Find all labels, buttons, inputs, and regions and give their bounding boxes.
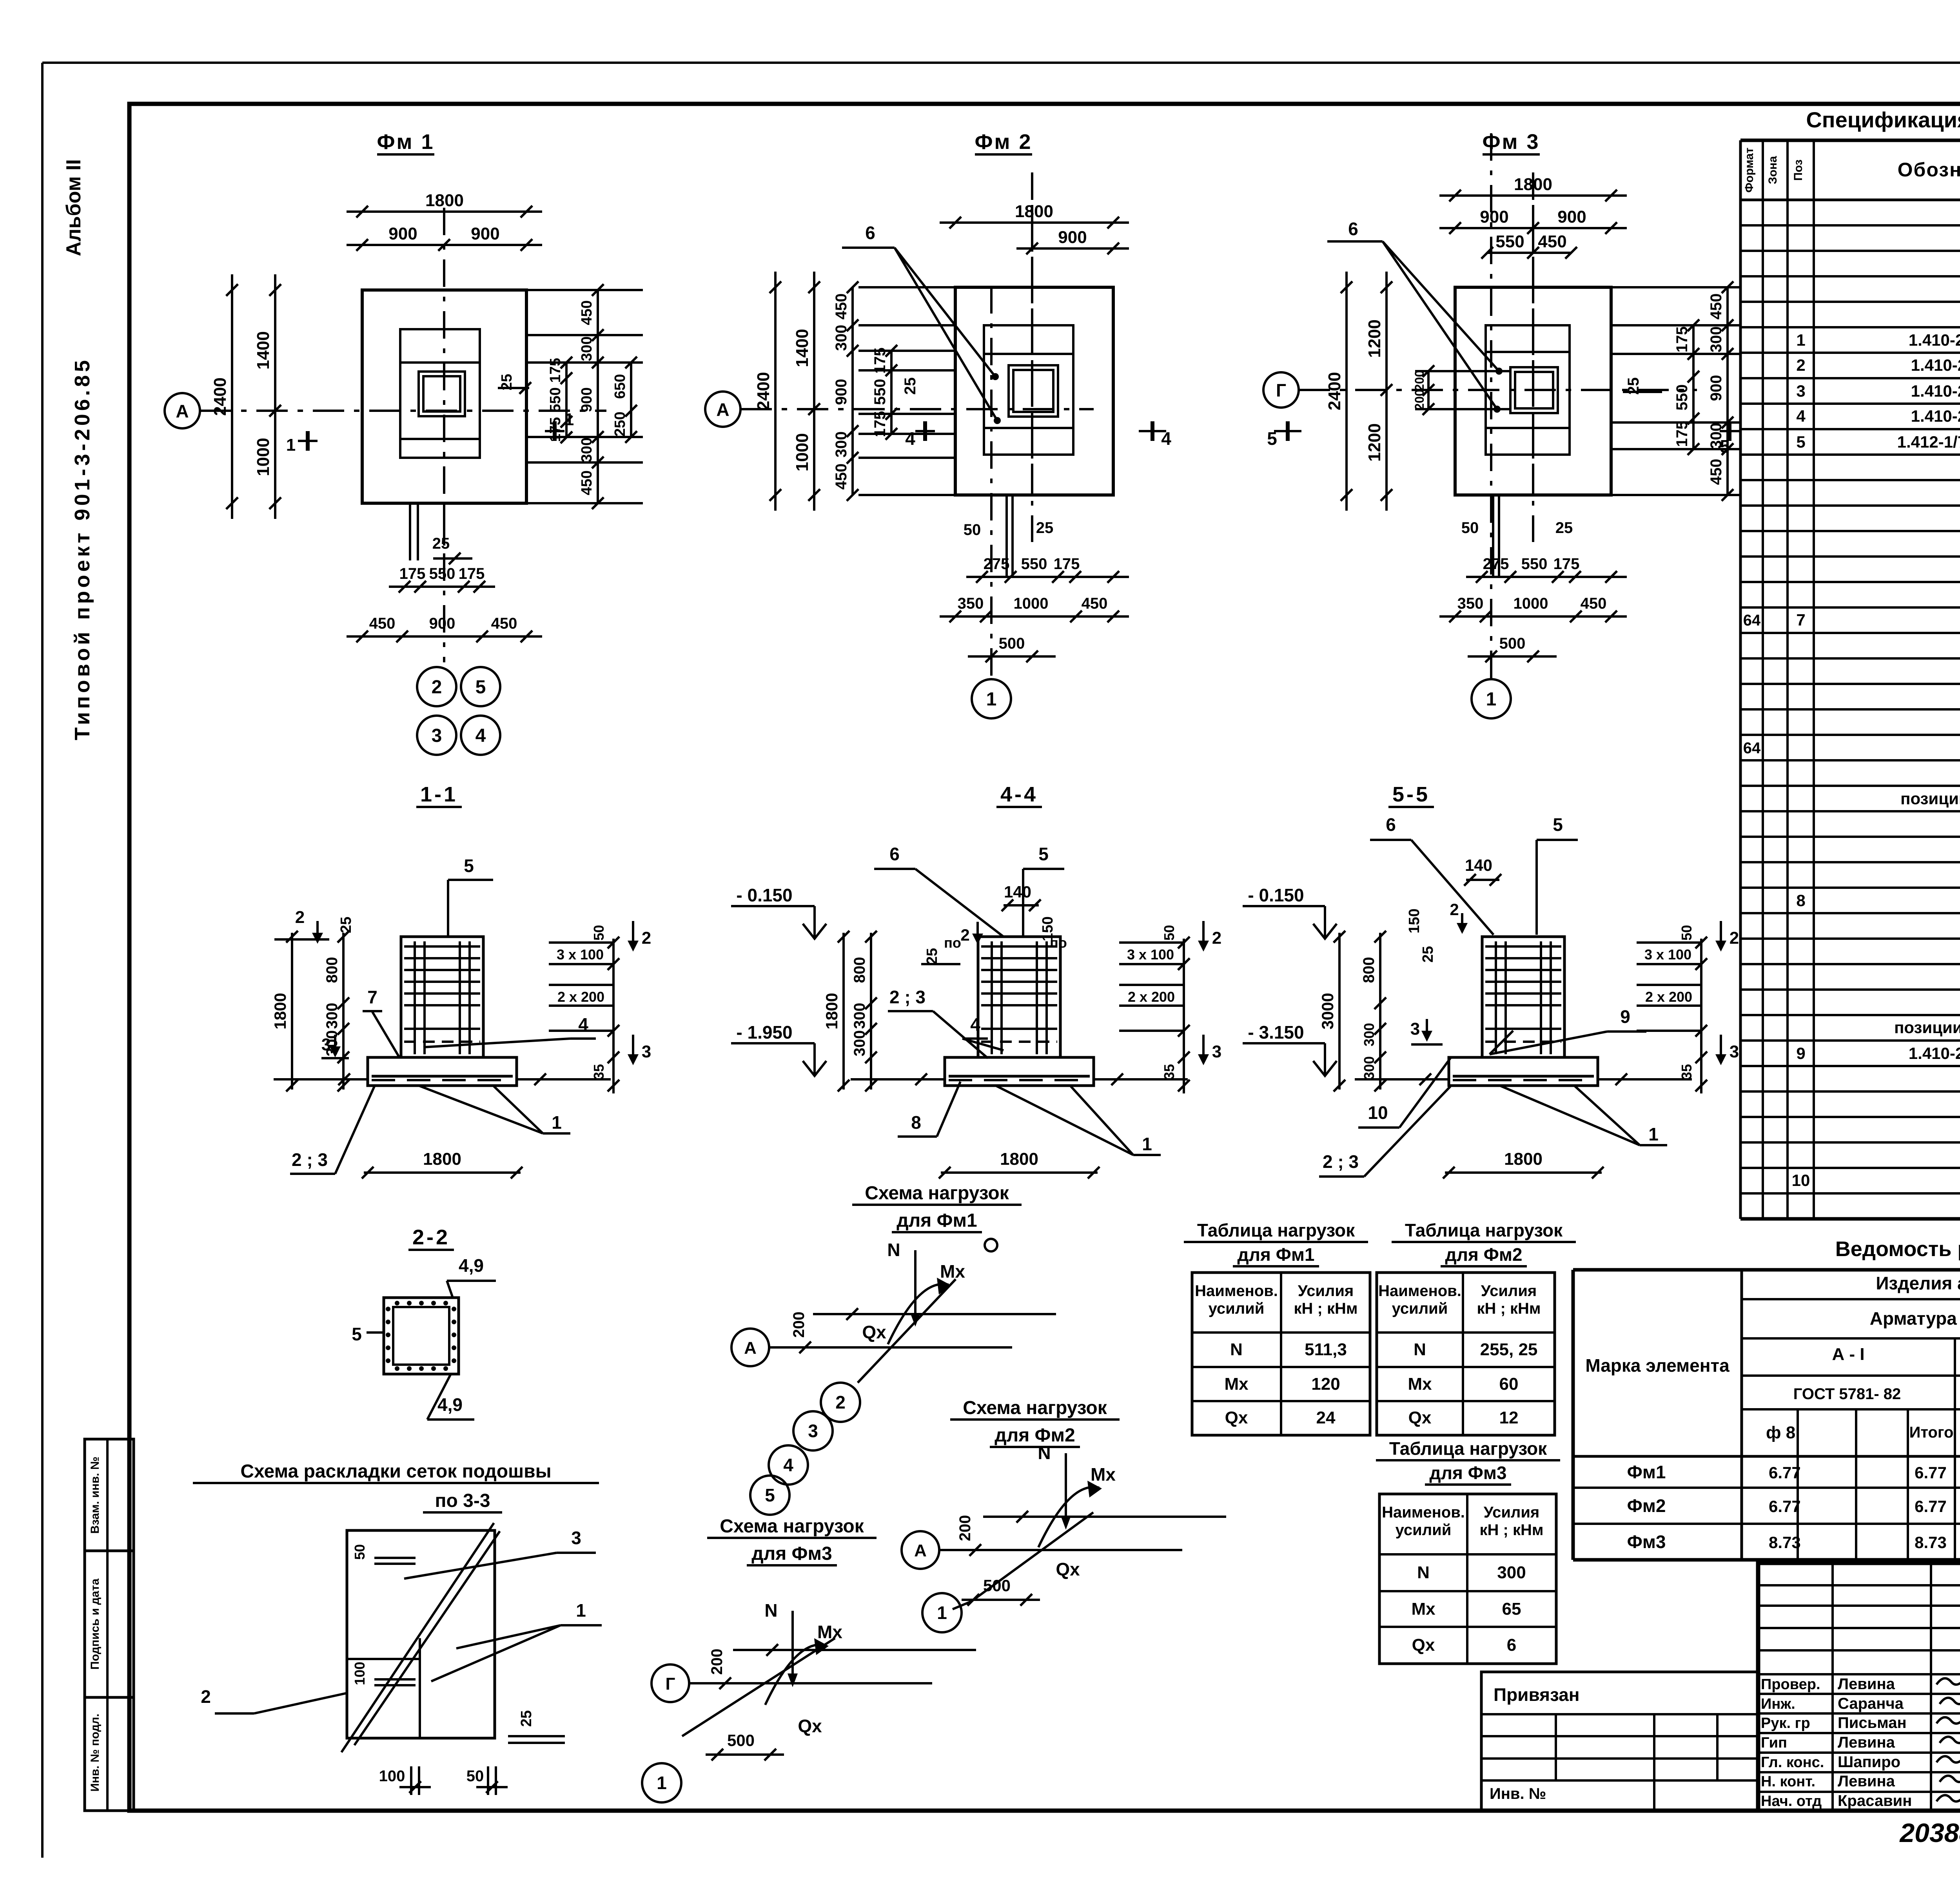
- svg-text:N: N: [1417, 1563, 1430, 1582]
- svg-text:450: 450: [1708, 294, 1725, 320]
- svg-text:N: N: [764, 1600, 777, 1621]
- svg-text:усилий: усилий: [1392, 1300, 1448, 1317]
- svg-text:4: 4: [1161, 428, 1171, 449]
- svg-text:1.410-2 Вып.1: 1.410-2 Вып.1: [1911, 382, 1960, 400]
- svg-text:175: 175: [1054, 555, 1080, 573]
- svg-text:4-4: 4-4: [1000, 783, 1038, 806]
- svg-text:ГОСТ 5781- 82: ГОСТ 5781- 82: [1793, 1385, 1901, 1403]
- svg-text:9: 9: [1620, 1006, 1630, 1027]
- svg-text:6.77: 6.77: [1915, 1497, 1947, 1516]
- svg-text:4: 4: [578, 1014, 588, 1035]
- svg-text:1800: 1800: [822, 993, 841, 1029]
- svg-text:1.410-2 Вып.1: 1.410-2 Вып.1: [1911, 407, 1960, 425]
- svg-text:2: 2: [432, 677, 442, 698]
- svg-text:6: 6: [1386, 814, 1396, 835]
- svg-text:1.412-1/77. Вып.3: 1.412-1/77. Вып.3: [1897, 433, 1960, 451]
- svg-text:А - I: А - I: [1832, 1345, 1864, 1364]
- svg-text:кН ; кНм: кН ; кНм: [1477, 1300, 1541, 1317]
- svg-text:140: 140: [1465, 856, 1492, 874]
- svg-text:Нач. отд: Нач. отд: [1761, 1793, 1822, 1809]
- svg-text:Qx: Qx: [862, 1322, 886, 1342]
- svg-text:350: 350: [958, 595, 984, 612]
- svg-text:50: 50: [591, 925, 607, 941]
- svg-text:5: 5: [1267, 428, 1277, 449]
- svg-text:1400: 1400: [254, 331, 273, 370]
- svg-text:6: 6: [1507, 1635, 1516, 1655]
- svg-text:1800: 1800: [1504, 1149, 1543, 1169]
- svg-text:900: 900: [833, 379, 850, 405]
- svg-text:Mx: Mx: [1224, 1374, 1249, 1394]
- svg-text:Qx: Qx: [1056, 1559, 1080, 1579]
- svg-text:5: 5: [1038, 844, 1049, 864]
- svg-text:50: 50: [1161, 925, 1177, 941]
- svg-text:900: 900: [1708, 375, 1725, 401]
- svg-text:200: 200: [790, 1312, 808, 1338]
- svg-text:1: 1: [937, 1603, 947, 1623]
- svg-text:1800: 1800: [271, 993, 289, 1029]
- svg-text:Qx: Qx: [1408, 1408, 1432, 1427]
- svg-text:900: 900: [1480, 207, 1508, 227]
- svg-text:3000: 3000: [1318, 993, 1337, 1029]
- svg-text:Спецификация монолитных фу: Спецификация монолитных фундаментов (Фм1…: [1806, 107, 1960, 132]
- svg-text:1: 1: [1486, 689, 1497, 710]
- svg-text:900: 900: [1058, 228, 1087, 247]
- svg-text:- 3.150: - 3.150: [1248, 1022, 1304, 1042]
- svg-text:А: А: [176, 401, 189, 421]
- svg-text:3: 3: [1796, 382, 1805, 400]
- svg-text:Г: Г: [666, 1674, 675, 1693]
- svg-text:2 х 200: 2 х 200: [1128, 989, 1175, 1005]
- svg-text:по 3-3: по 3-3: [435, 1490, 490, 1511]
- svg-text:6: 6: [865, 223, 875, 243]
- svg-text:1.410-2 Вып.1: 1.410-2 Вып.1: [1911, 356, 1960, 374]
- svg-text:65: 65: [1502, 1599, 1521, 1619]
- svg-text:10: 10: [1368, 1102, 1388, 1123]
- svg-text:1: 1: [1648, 1124, 1659, 1144]
- svg-text:для Фм2: для Фм2: [1445, 1244, 1523, 1265]
- svg-text:для Фм3: для Фм3: [751, 1543, 832, 1564]
- svg-text:2: 2: [960, 926, 969, 944]
- svg-text:Наименов.: Наименов.: [1378, 1282, 1461, 1300]
- svg-text:1800: 1800: [425, 191, 464, 210]
- svg-text:450: 450: [579, 470, 595, 495]
- svg-text:1: 1: [1142, 1134, 1152, 1154]
- svg-text:5: 5: [1796, 433, 1805, 451]
- svg-text:900: 900: [1557, 207, 1586, 227]
- svg-text:Рук. гр: Рук. гр: [1761, 1715, 1810, 1731]
- svg-text:3: 3: [808, 1421, 818, 1441]
- svg-text:Схема раскладки сеток п: Схема раскладки сеток подошвы: [240, 1461, 551, 1482]
- svg-text:5: 5: [475, 677, 486, 698]
- svg-text:175: 175: [1673, 326, 1691, 353]
- svg-text:1: 1: [1796, 331, 1805, 349]
- svg-text:2: 2: [1796, 356, 1805, 374]
- svg-text:N: N: [887, 1240, 900, 1260]
- svg-text:Арматура класса: Арматура класса: [1870, 1308, 1960, 1329]
- svg-text:Фм 1: Фм 1: [377, 130, 434, 154]
- svg-text:20388-02: 20388-02: [1899, 1818, 1960, 1848]
- svg-text:3 х 100: 3 х 100: [1127, 946, 1174, 963]
- svg-text:3: 3: [432, 725, 442, 746]
- svg-text:650: 650: [612, 374, 628, 399]
- svg-text:2: 2: [201, 1686, 211, 1707]
- svg-text:5-5: 5-5: [1392, 783, 1430, 806]
- svg-text:А: А: [716, 399, 729, 420]
- svg-text:Фм1: Фм1: [1627, 1462, 1666, 1482]
- svg-text:300: 300: [579, 437, 595, 462]
- svg-text:4: 4: [783, 1455, 793, 1475]
- svg-text:Наименов.: Наименов.: [1195, 1282, 1278, 1300]
- svg-text:3 х 100: 3 х 100: [1644, 946, 1691, 963]
- svg-text:6.77: 6.77: [1769, 1463, 1801, 1482]
- svg-text:Формат: Формат: [1743, 147, 1756, 192]
- svg-text:2: 2: [1730, 928, 1739, 948]
- svg-text:300: 300: [579, 336, 595, 361]
- svg-text:450: 450: [1538, 232, 1566, 251]
- svg-text:6: 6: [889, 844, 900, 864]
- svg-text:12: 12: [1499, 1408, 1519, 1427]
- svg-text:1-1: 1-1: [420, 783, 458, 806]
- svg-text:Поз: Поз: [1792, 160, 1805, 181]
- svg-text:Марка элемента: Марка элемента: [1585, 1355, 1730, 1376]
- svg-text:550: 550: [871, 379, 889, 405]
- svg-text:8: 8: [911, 1112, 921, 1133]
- svg-text:25: 25: [518, 1710, 535, 1727]
- svg-text:8.73: 8.73: [1769, 1533, 1801, 1552]
- svg-text:200: 200: [708, 1649, 726, 1675]
- svg-text:Ведомость расхода стали: Ведомость расхода стали на элемент, кг.: [1835, 1237, 1960, 1261]
- svg-text:1: 1: [564, 410, 574, 429]
- svg-text:200: 200: [1412, 370, 1426, 391]
- svg-text:300: 300: [323, 1003, 341, 1029]
- svg-text:1800: 1800: [1514, 175, 1552, 194]
- svg-text:Фм 2: Фм 2: [975, 130, 1032, 154]
- svg-text:1: 1: [657, 1773, 667, 1793]
- svg-text:Г: Г: [1276, 380, 1286, 401]
- svg-text:24: 24: [1316, 1408, 1336, 1427]
- svg-text:900: 900: [579, 387, 595, 412]
- svg-text:175: 175: [1673, 421, 1691, 447]
- svg-text:Таблица нагрузок: Таблица нагрузок: [1197, 1220, 1355, 1240]
- svg-text:N: N: [1230, 1340, 1243, 1359]
- svg-text:2: 2: [1212, 928, 1221, 948]
- svg-text:Таблица нагрузок: Таблица нагрузок: [1389, 1438, 1547, 1459]
- svg-text:N: N: [1038, 1443, 1051, 1463]
- svg-text:450: 450: [1708, 459, 1725, 485]
- svg-text:Обозначение: Обозначение: [1898, 159, 1960, 181]
- svg-text:5: 5: [352, 1324, 362, 1344]
- svg-text:Письман: Письман: [1838, 1714, 1907, 1731]
- svg-text:Mx: Mx: [1091, 1464, 1116, 1485]
- svg-text:Гип: Гип: [1761, 1735, 1787, 1751]
- svg-text:для Фм1: для Фм1: [1238, 1244, 1315, 1265]
- svg-text:усилий: усилий: [1209, 1300, 1265, 1317]
- svg-text:- 1.950: - 1.950: [736, 1022, 792, 1042]
- svg-text:Схема нагрузок: Схема нагрузок: [865, 1183, 1009, 1204]
- svg-text:25: 25: [902, 377, 919, 395]
- svg-text:Зона: Зона: [1766, 156, 1779, 184]
- svg-text:по: по: [944, 935, 961, 951]
- svg-text:450: 450: [1581, 595, 1607, 612]
- svg-text:Шапиро: Шапиро: [1838, 1753, 1900, 1771]
- svg-text:3: 3: [642, 1042, 651, 1061]
- svg-text:Левина: Левина: [1838, 1773, 1895, 1790]
- svg-text:для Фм2: для Фм2: [995, 1425, 1075, 1446]
- svg-text:Усилия: Усилия: [1484, 1504, 1540, 1521]
- svg-text:450: 450: [579, 300, 595, 325]
- svg-text:275: 275: [1483, 555, 1509, 573]
- svg-text:35: 35: [1161, 1064, 1177, 1080]
- svg-text:А: А: [914, 1541, 927, 1560]
- svg-text:2400: 2400: [754, 372, 773, 410]
- svg-text:Гл. конс.: Гл. конс.: [1761, 1754, 1824, 1771]
- svg-text:500: 500: [1499, 635, 1526, 652]
- svg-text:50: 50: [1461, 519, 1479, 537]
- svg-text:2 х 200: 2 х 200: [557, 989, 604, 1005]
- svg-text:1.410-2. Вып.1: 1.410-2. Вып.1: [1909, 331, 1960, 349]
- svg-text:255, 25: 255, 25: [1480, 1340, 1538, 1359]
- svg-text:Mx: Mx: [1408, 1374, 1432, 1394]
- svg-text:550: 550: [429, 565, 456, 582]
- svg-text:100: 100: [379, 1768, 405, 1785]
- svg-text:25: 25: [1036, 519, 1054, 537]
- svg-text:25: 25: [924, 948, 940, 965]
- svg-text:3: 3: [1730, 1042, 1739, 1061]
- svg-text:А: А: [744, 1338, 757, 1358]
- svg-text:для Фм3: для Фм3: [1430, 1463, 1507, 1483]
- svg-text:2: 2: [835, 1392, 846, 1412]
- svg-text:175: 175: [399, 565, 426, 582]
- svg-text:1.410-2. Вып.1: 1.410-2. Вып.1: [1909, 1044, 1960, 1062]
- svg-text:Саранча: Саранча: [1838, 1695, 1904, 1712]
- svg-text:3: 3: [1212, 1042, 1221, 1061]
- svg-text:Инж.: Инж.: [1761, 1696, 1795, 1712]
- svg-text:1000: 1000: [793, 433, 812, 471]
- svg-text:Фм2: Фм2: [1627, 1496, 1666, 1516]
- svg-text:35: 35: [591, 1064, 607, 1080]
- svg-text:550: 550: [1021, 555, 1047, 573]
- svg-text:200: 200: [1412, 389, 1426, 410]
- svg-text:140: 140: [1004, 883, 1031, 901]
- svg-text:60: 60: [1499, 1374, 1519, 1394]
- svg-text:1400: 1400: [793, 329, 812, 367]
- svg-text:N: N: [1414, 1340, 1426, 1359]
- svg-text:100: 100: [352, 1662, 368, 1685]
- svg-text:Левина: Левина: [1838, 1734, 1895, 1751]
- svg-text:4: 4: [1796, 407, 1806, 425]
- svg-text:ф 8: ф 8: [1766, 1423, 1795, 1442]
- svg-text:по: по: [1050, 935, 1067, 951]
- svg-text:Mx: Mx: [1411, 1599, 1436, 1619]
- svg-text:Усилия: Усилия: [1481, 1282, 1537, 1300]
- svg-text:800: 800: [851, 957, 868, 983]
- svg-text:4: 4: [475, 725, 486, 746]
- svg-text:300: 300: [1708, 326, 1725, 353]
- svg-text:6.77: 6.77: [1769, 1497, 1801, 1516]
- svg-text:4,9: 4,9: [459, 1255, 484, 1276]
- svg-text:450: 450: [491, 615, 517, 632]
- svg-text:25: 25: [432, 535, 450, 552]
- svg-text:550: 550: [547, 387, 564, 412]
- svg-text:150: 150: [1406, 908, 1423, 933]
- svg-text:5: 5: [765, 1485, 775, 1505]
- svg-text:7: 7: [367, 987, 377, 1007]
- svg-text:Схема нагрузок: Схема нагрузок: [963, 1398, 1107, 1418]
- svg-text:1: 1: [576, 1600, 586, 1621]
- svg-text:35: 35: [1679, 1064, 1695, 1080]
- svg-text:5: 5: [464, 856, 474, 876]
- svg-text:Фм3: Фм3: [1627, 1532, 1666, 1552]
- svg-text:8.73: 8.73: [1915, 1533, 1947, 1552]
- svg-text:позиции 1÷5 см.: позиции 1÷5 см.: [1900, 789, 1960, 808]
- svg-text:5: 5: [1720, 436, 1730, 457]
- svg-text:300: 300: [833, 431, 850, 458]
- svg-text:500: 500: [727, 1731, 755, 1750]
- svg-text:4,9: 4,9: [437, 1394, 463, 1415]
- svg-text:25: 25: [1420, 946, 1436, 963]
- svg-text:300: 300: [851, 1030, 868, 1057]
- svg-text:500: 500: [999, 635, 1025, 652]
- svg-text:2: 2: [295, 908, 305, 927]
- svg-text:1: 1: [286, 435, 296, 455]
- svg-text:3 х 100: 3 х 100: [557, 946, 604, 963]
- svg-text:50: 50: [1679, 925, 1695, 941]
- svg-text:800: 800: [323, 957, 341, 983]
- svg-text:900: 900: [429, 615, 456, 632]
- svg-text:450: 450: [369, 615, 396, 632]
- svg-text:64: 64: [1743, 740, 1761, 757]
- svg-text:2 ; 3: 2 ; 3: [292, 1149, 328, 1170]
- svg-text:Типовой проект 901-3-206.85: Типовой проект 901-3-206.85: [71, 357, 94, 740]
- svg-text:Подпись и дата: Подпись и дата: [89, 1578, 102, 1670]
- svg-text:800: 800: [1360, 957, 1377, 983]
- svg-text:450: 450: [833, 294, 850, 320]
- svg-text:2: 2: [1450, 900, 1459, 919]
- svg-text:10: 10: [1792, 1171, 1810, 1189]
- svg-text:- 0.150: - 0.150: [1248, 885, 1304, 905]
- svg-text:1000: 1000: [1514, 595, 1548, 612]
- svg-text:25: 25: [338, 917, 354, 933]
- svg-text:Привязан: Привязан: [1494, 1684, 1580, 1705]
- svg-text:300: 300: [833, 325, 850, 351]
- svg-text:2: 2: [642, 928, 651, 948]
- svg-text:2 х 200: 2 х 200: [1645, 989, 1692, 1005]
- svg-text:Qx: Qx: [1412, 1635, 1435, 1655]
- svg-text:550: 550: [1495, 232, 1524, 251]
- svg-text:300: 300: [1361, 1056, 1377, 1080]
- svg-text:50: 50: [964, 521, 981, 538]
- svg-text:550: 550: [1521, 555, 1548, 573]
- svg-text:9: 9: [1796, 1044, 1805, 1062]
- svg-text:2 ; 3: 2 ; 3: [1323, 1151, 1359, 1172]
- svg-text:Итого: Итого: [1909, 1424, 1954, 1441]
- svg-text:175: 175: [1553, 555, 1580, 573]
- svg-text:4: 4: [905, 428, 915, 449]
- svg-text:Наименов.: Наименов.: [1382, 1504, 1465, 1521]
- svg-text:Красавин: Красавин: [1838, 1792, 1912, 1809]
- svg-text:200: 200: [956, 1515, 974, 1541]
- svg-text:Схема нагрузок: Схема нагрузок: [720, 1516, 864, 1537]
- svg-text:1800: 1800: [1015, 202, 1053, 221]
- svg-text:511,3: 511,3: [1305, 1340, 1347, 1359]
- svg-text:550: 550: [1673, 384, 1691, 411]
- svg-text:8: 8: [1796, 891, 1805, 910]
- svg-text:450: 450: [833, 464, 850, 490]
- svg-text:2 ; 3: 2 ; 3: [889, 987, 926, 1007]
- svg-text:2-2: 2-2: [412, 1226, 450, 1249]
- svg-text:3: 3: [321, 1035, 331, 1054]
- svg-text:1: 1: [986, 689, 997, 710]
- svg-text:5: 5: [1553, 814, 1563, 835]
- svg-text:усилий: усилий: [1396, 1521, 1452, 1539]
- svg-text:1000: 1000: [254, 438, 273, 476]
- svg-text:25: 25: [1555, 519, 1573, 537]
- svg-text:Изделия арматурные: Изделия арматурные: [1876, 1273, 1960, 1293]
- svg-text:Mx: Mx: [817, 1622, 842, 1642]
- svg-text:1800: 1800: [1000, 1149, 1038, 1169]
- svg-text:3: 3: [1410, 1019, 1420, 1039]
- svg-text:3: 3: [571, 1528, 581, 1548]
- svg-text:350: 350: [1457, 595, 1484, 612]
- svg-text:2400: 2400: [211, 377, 230, 416]
- svg-text:175: 175: [547, 358, 564, 383]
- svg-text:1000: 1000: [1014, 595, 1049, 612]
- svg-text:4: 4: [970, 1014, 980, 1035]
- svg-text:Альбом II: Альбом II: [62, 159, 85, 256]
- svg-text:120: 120: [1311, 1374, 1340, 1394]
- svg-text:Провер.: Провер.: [1761, 1676, 1820, 1693]
- svg-text:Инв. № подл.: Инв. № подл.: [89, 1713, 102, 1791]
- svg-text:кН ; кНм: кН ; кНм: [1294, 1300, 1358, 1317]
- svg-text:2400: 2400: [1325, 372, 1344, 410]
- svg-text:Qx: Qx: [1225, 1408, 1248, 1427]
- svg-text:Таблица нагрузок: Таблица нагрузок: [1405, 1220, 1563, 1240]
- svg-text:275: 275: [984, 555, 1010, 573]
- svg-text:450: 450: [1082, 595, 1108, 612]
- svg-text:1200: 1200: [1365, 423, 1384, 462]
- svg-text:- 0.150: - 0.150: [736, 885, 792, 905]
- svg-text:Qx: Qx: [798, 1716, 822, 1736]
- svg-text:900: 900: [471, 224, 499, 243]
- svg-text:900: 900: [388, 224, 417, 243]
- svg-text:кН ; кНм: кН ; кНм: [1480, 1521, 1544, 1539]
- svg-text:Взам. инв. №: Взам. инв. №: [89, 1457, 102, 1534]
- svg-text:300: 300: [851, 1003, 868, 1029]
- svg-text:Инв. №: Инв. №: [1490, 1785, 1546, 1802]
- svg-text:1800: 1800: [423, 1149, 461, 1169]
- svg-text:Mx: Mx: [940, 1261, 965, 1282]
- svg-text:1: 1: [552, 1112, 562, 1133]
- svg-text:1200: 1200: [1365, 319, 1384, 358]
- svg-text:6.77: 6.77: [1915, 1463, 1947, 1482]
- svg-text:7: 7: [1796, 611, 1805, 629]
- svg-text:64: 64: [1743, 612, 1761, 629]
- svg-text:позиции 1;2;3;5;Б: позиции 1;2;3;5;Б: [1894, 1018, 1960, 1037]
- svg-text:для Фм1: для Фм1: [897, 1210, 977, 1231]
- svg-text:175: 175: [459, 565, 485, 582]
- svg-text:300: 300: [1497, 1563, 1526, 1582]
- svg-text:Н. конт.: Н. конт.: [1761, 1773, 1815, 1790]
- svg-text:50: 50: [352, 1544, 368, 1560]
- svg-text:Левина: Левина: [1838, 1675, 1895, 1693]
- svg-text:Усилия: Усилия: [1298, 1282, 1354, 1300]
- svg-text:250: 250: [612, 412, 628, 436]
- svg-text:500: 500: [983, 1576, 1011, 1595]
- svg-text:6: 6: [1348, 219, 1358, 239]
- svg-text:50: 50: [466, 1768, 484, 1785]
